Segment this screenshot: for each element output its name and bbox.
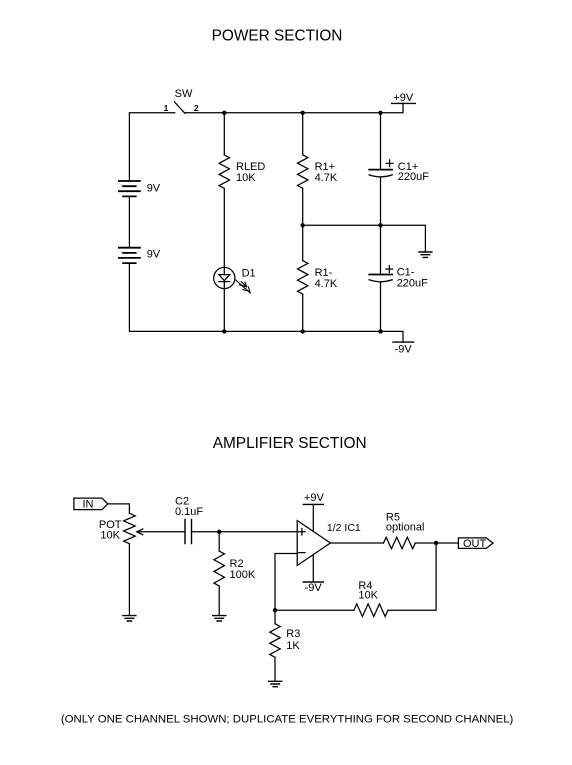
svg-text:(ONLY ONE CHANNEL SHOWN; DUPLI: (ONLY ONE CHANNEL SHOWN; DUPLICATE EVERY… [61,714,514,726]
svg-text:1/2 IC1: 1/2 IC1 [327,522,361,534]
svg-text:IN: IN [83,499,94,511]
svg-text:4.7K: 4.7K [315,278,338,290]
svg-text:+9V: +9V [304,492,325,504]
svg-text:AMPLIFIER SECTION: AMPLIFIER SECTION [213,435,367,452]
svg-text:10K: 10K [358,589,378,601]
svg-text:R3: R3 [286,628,300,640]
svg-text:220uF: 220uF [397,278,428,290]
svg-text:0.1uF: 0.1uF [175,506,203,518]
svg-text:220uF: 220uF [398,171,429,183]
svg-text:D1: D1 [242,267,256,279]
svg-text:-9V: -9V [305,582,323,594]
svg-text:SW: SW [175,88,193,100]
svg-text:100K: 100K [230,569,256,581]
svg-text:9V: 9V [147,249,161,261]
svg-text:optional: optional [386,521,425,533]
svg-text:-9V: -9V [395,343,413,355]
svg-text:1K: 1K [286,640,300,652]
svg-text:2: 2 [194,103,199,113]
svg-text:10K: 10K [100,529,120,541]
svg-text:POWER SECTION: POWER SECTION [212,28,343,45]
svg-text:1: 1 [164,103,169,113]
svg-text:10K: 10K [236,172,256,184]
svg-text:9V: 9V [147,182,161,194]
svg-text:+9V: +9V [393,92,414,104]
svg-text:OUT: OUT [463,538,487,550]
svg-text:4.7K: 4.7K [315,172,338,184]
